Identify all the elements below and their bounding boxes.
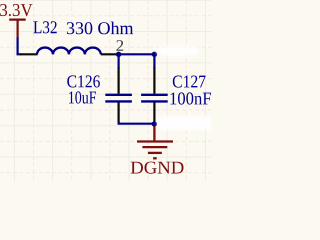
wire down to C127	[153, 54, 155, 68]
power net label 3.3V	[0, 4, 32, 16]
power port 3.3V (bar symbol)	[9, 20, 26, 38]
capacitor C127	[141, 67, 168, 124]
designator L32	[33, 21, 56, 33]
junction at ground	[152, 121, 157, 126]
junction node 2	[116, 52, 121, 57]
inductor L32 pin 2	[101, 53, 117, 55]
inductor L32 body	[37, 48, 101, 55]
net label DGND	[131, 162, 184, 174]
ground symbol DGND	[137, 126, 173, 158]
white mask blobs	[157, 47, 216, 131]
designator C127	[173, 76, 206, 88]
value 100nF	[171, 92, 212, 104]
inductor L32 pin 1	[20, 53, 38, 55]
junction at C127 branch	[152, 52, 157, 57]
value 10uF	[69, 91, 96, 103]
capacitor C126	[105, 67, 132, 123]
value 330 Ohm	[67, 22, 133, 35]
wire top rail	[119, 53, 155, 55]
pin number 2	[116, 40, 123, 51]
wire from power port down and right	[18, 38, 21, 55]
designator C126	[67, 75, 100, 87]
wire bottom rail	[119, 122, 155, 124]
wire down to C126	[117, 54, 119, 68]
